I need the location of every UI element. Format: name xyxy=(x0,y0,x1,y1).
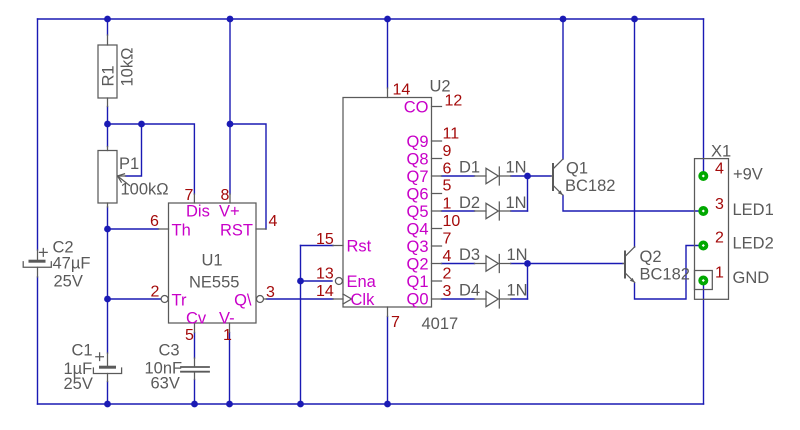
svg-text:2: 2 xyxy=(443,266,452,283)
svg-text:Q1: Q1 xyxy=(566,160,588,178)
svg-text:NE555: NE555 xyxy=(189,274,239,292)
svg-text:1N: 1N xyxy=(506,194,527,212)
svg-text:4: 4 xyxy=(269,213,278,230)
svg-text:U1: U1 xyxy=(202,252,223,270)
svg-text:V-: V- xyxy=(219,310,235,328)
svg-text:7: 7 xyxy=(391,314,400,331)
svg-text:1: 1 xyxy=(443,196,452,213)
svg-text:Q7: Q7 xyxy=(406,168,428,186)
svg-text:Q0: Q0 xyxy=(406,291,428,309)
svg-text:BC182: BC182 xyxy=(640,266,690,284)
svg-text:12: 12 xyxy=(445,93,463,110)
svg-text:63V: 63V xyxy=(151,375,180,393)
svg-text:11: 11 xyxy=(443,126,460,143)
svg-text:BC182: BC182 xyxy=(565,177,615,195)
svg-text:1N: 1N xyxy=(506,159,527,177)
svg-text:C3: C3 xyxy=(159,342,180,360)
svg-text:Ena: Ena xyxy=(347,273,377,291)
svg-text:14: 14 xyxy=(316,283,334,300)
svg-text:Tr: Tr xyxy=(172,292,187,310)
svg-text:Cv: Cv xyxy=(186,310,207,328)
svg-text:3: 3 xyxy=(266,284,275,301)
svg-text:Q4: Q4 xyxy=(406,221,428,239)
svg-text:D3: D3 xyxy=(459,246,480,264)
svg-text:2: 2 xyxy=(151,284,160,301)
svg-text:14: 14 xyxy=(393,82,411,99)
svg-text:4017: 4017 xyxy=(422,315,459,333)
svg-text:25V: 25V xyxy=(54,273,83,291)
svg-text:R1: R1 xyxy=(100,65,118,86)
svg-text:D4: D4 xyxy=(459,282,480,300)
svg-text:1: 1 xyxy=(223,327,232,344)
svg-text:1N: 1N xyxy=(507,246,528,264)
svg-text:+9V: +9V xyxy=(733,166,763,184)
svg-text:CO: CO xyxy=(404,99,429,117)
svg-text:RST: RST xyxy=(220,222,253,240)
svg-text:10kΩ: 10kΩ xyxy=(119,48,137,87)
svg-text:Q2: Q2 xyxy=(640,248,662,266)
svg-text:7: 7 xyxy=(443,231,452,248)
svg-text:9: 9 xyxy=(443,143,452,160)
svg-text:6: 6 xyxy=(150,213,159,230)
svg-text:P1: P1 xyxy=(119,155,139,173)
svg-text:4: 4 xyxy=(443,248,452,265)
svg-text:5: 5 xyxy=(185,327,194,344)
svg-text:Rst: Rst xyxy=(347,238,372,256)
svg-text:47µF: 47µF xyxy=(53,255,91,273)
svg-text:3: 3 xyxy=(443,283,452,300)
svg-text:Q3: Q3 xyxy=(406,238,428,256)
svg-text:Q6: Q6 xyxy=(406,186,428,204)
svg-text:Q\: Q\ xyxy=(234,292,252,310)
svg-text:4: 4 xyxy=(715,161,724,178)
svg-text:6: 6 xyxy=(443,161,452,178)
svg-text:1: 1 xyxy=(715,265,724,282)
svg-text:GND: GND xyxy=(733,269,770,287)
svg-text:LED2: LED2 xyxy=(733,235,774,253)
svg-text:Q5: Q5 xyxy=(406,203,428,221)
svg-text:15: 15 xyxy=(316,231,334,248)
svg-text:D2: D2 xyxy=(459,194,480,212)
svg-text:3: 3 xyxy=(715,196,724,213)
svg-text:Q1: Q1 xyxy=(406,273,428,291)
svg-text:V+: V+ xyxy=(219,203,240,221)
svg-text:C1: C1 xyxy=(72,342,93,360)
svg-text:8: 8 xyxy=(221,187,230,204)
svg-text:Th: Th xyxy=(172,222,191,240)
svg-text:10: 10 xyxy=(443,213,461,230)
svg-text:7: 7 xyxy=(185,187,194,204)
svg-text:13: 13 xyxy=(316,266,334,283)
svg-text:D1: D1 xyxy=(459,159,480,177)
svg-text:X1: X1 xyxy=(711,143,731,161)
svg-text:LED1: LED1 xyxy=(733,201,774,219)
svg-text:1N: 1N xyxy=(507,282,528,300)
svg-text:Dis: Dis xyxy=(186,203,210,221)
svg-text:Q2: Q2 xyxy=(406,256,428,274)
svg-text:Q9: Q9 xyxy=(406,133,428,151)
svg-text:5: 5 xyxy=(443,178,452,195)
svg-text:25V: 25V xyxy=(64,375,93,393)
svg-text:Q8: Q8 xyxy=(406,151,428,169)
svg-text:2: 2 xyxy=(715,230,724,247)
svg-text:100kΩ: 100kΩ xyxy=(121,181,169,199)
svg-text:Clk: Clk xyxy=(351,291,376,309)
